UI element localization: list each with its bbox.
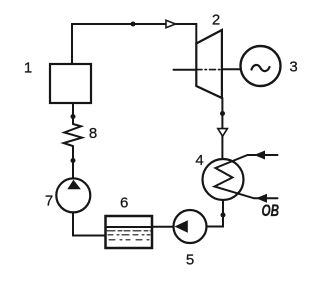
svg-text:4: 4 [195, 152, 203, 169]
svg-text:6: 6 [120, 195, 128, 212]
svg-text:8: 8 [89, 125, 97, 142]
svg-text:7: 7 [45, 193, 53, 210]
svg-text:5: 5 [186, 252, 194, 269]
svg-text:3: 3 [289, 59, 297, 76]
svg-text:ОВ: ОВ [262, 202, 280, 220]
svg-text:2: 2 [212, 12, 220, 29]
svg-text:1: 1 [24, 60, 32, 77]
